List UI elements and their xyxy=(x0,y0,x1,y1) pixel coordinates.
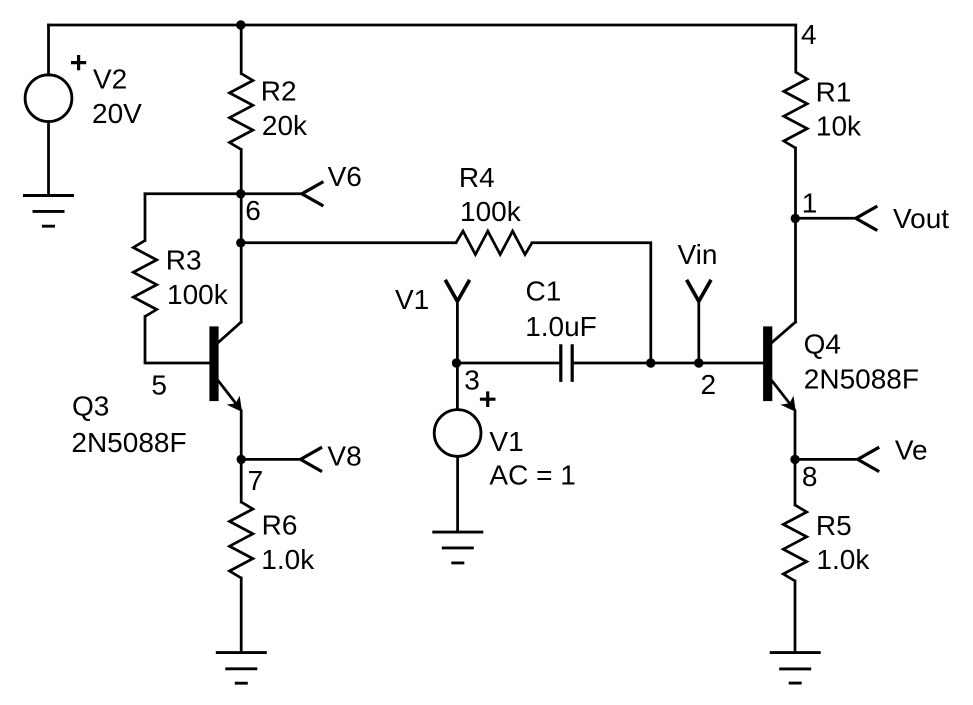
svg-text:1.0uF: 1.0uF xyxy=(525,311,597,342)
svg-text:Q4: Q4 xyxy=(804,328,841,359)
svg-text:20V: 20V xyxy=(92,98,142,129)
svg-text:7: 7 xyxy=(248,465,264,496)
svg-text:R1: R1 xyxy=(816,76,852,107)
svg-text:Ve: Ve xyxy=(895,435,928,466)
svg-text:2: 2 xyxy=(701,369,717,400)
svg-text:V2: V2 xyxy=(93,64,127,95)
svg-text:R5: R5 xyxy=(816,510,852,541)
svg-text:V8: V8 xyxy=(327,441,361,472)
svg-text:4: 4 xyxy=(801,19,817,50)
svg-text:AC = 1: AC = 1 xyxy=(489,459,575,490)
svg-text:R4: R4 xyxy=(459,162,495,193)
svg-text:Vin: Vin xyxy=(678,239,718,270)
svg-text:Q3: Q3 xyxy=(72,390,109,421)
svg-text:5: 5 xyxy=(151,369,167,400)
svg-text:2N5088F: 2N5088F xyxy=(71,427,186,458)
svg-text:20k: 20k xyxy=(262,110,308,141)
svg-text:10k: 10k xyxy=(816,111,862,142)
svg-text:8: 8 xyxy=(802,461,818,492)
svg-text:C1: C1 xyxy=(526,275,562,306)
svg-text:100k: 100k xyxy=(167,279,229,310)
svg-text:2N5088F: 2N5088F xyxy=(804,363,919,394)
svg-text:V1: V1 xyxy=(395,284,429,315)
svg-text:100k: 100k xyxy=(460,196,522,227)
svg-text:Vout: Vout xyxy=(893,203,949,234)
svg-text:1: 1 xyxy=(802,188,818,219)
svg-text:R2: R2 xyxy=(261,75,297,106)
svg-text:R6: R6 xyxy=(262,510,298,541)
svg-text:R3: R3 xyxy=(166,245,202,276)
svg-text:3: 3 xyxy=(464,365,480,396)
svg-text:V1: V1 xyxy=(489,426,523,457)
svg-text:V6: V6 xyxy=(328,161,362,192)
svg-text:1.0k: 1.0k xyxy=(261,544,315,575)
svg-text:1.0k: 1.0k xyxy=(816,544,870,575)
svg-text:6: 6 xyxy=(245,195,261,226)
